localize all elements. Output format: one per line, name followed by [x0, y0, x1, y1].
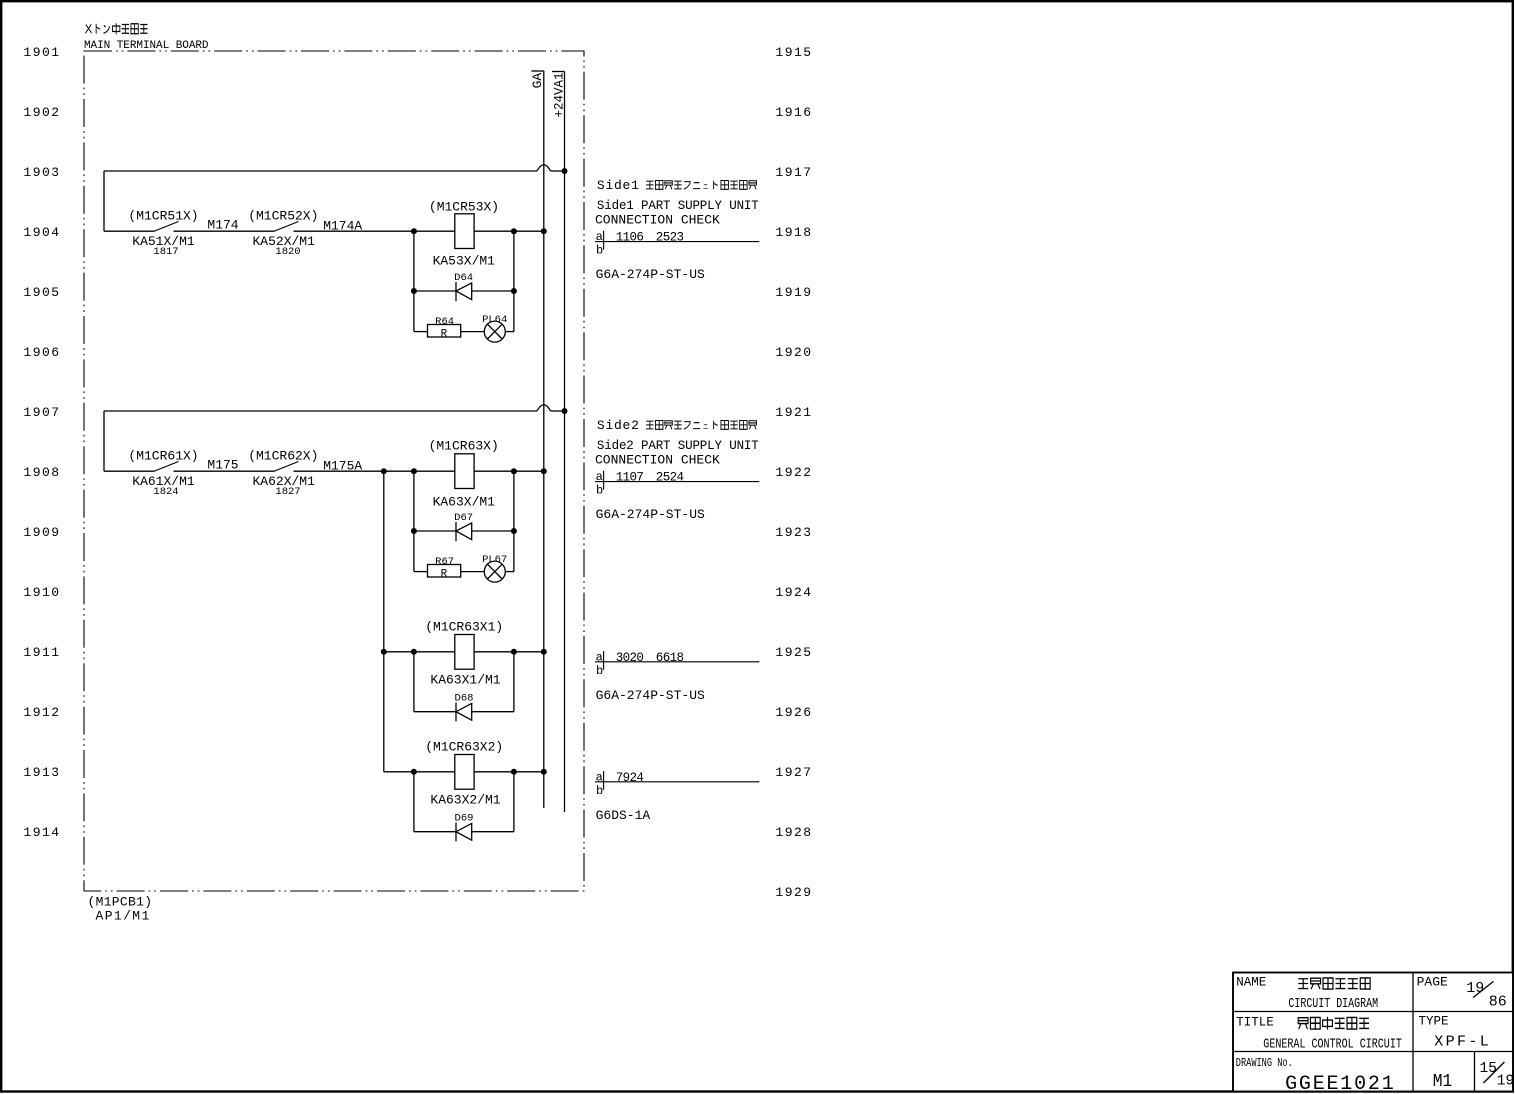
- wire feed vertical sec2-4: [383, 471, 385, 772]
- wire D68 right vertical: [513, 652, 515, 712]
- note Side1 Japanese: [597, 178, 757, 193]
- svg-text:1916: 1916: [775, 105, 812, 120]
- wire vertical 1907-1908: [103, 411, 105, 471]
- svg-text:1915: 1915: [775, 45, 812, 60]
- contact M1CR51X: [154, 222, 179, 232]
- svg-text:NAME: NAME: [1236, 976, 1266, 990]
- svg-text:TITLE: TITLE: [1236, 1015, 1274, 1029]
- svg-text:(M1CR53X): (M1CR53X): [429, 200, 499, 215]
- bus GA vertical line: [543, 71, 545, 808]
- svg-text:(M1CR52X): (M1CR52X): [248, 209, 318, 224]
- svg-text:1903: 1903: [23, 165, 60, 180]
- sheet number slash: [1484, 1062, 1505, 1083]
- svg-text:1901: 1901: [23, 45, 60, 60]
- svg-text:1925: 1925: [775, 645, 812, 660]
- svg-text:GA: GA: [530, 73, 545, 89]
- svg-text:Side2 PART SUPPLY UNIT: Side2 PART SUPPLY UNIT: [597, 439, 759, 453]
- svg-text:(M1CR63X2): (M1CR63X2): [425, 739, 503, 754]
- junction row1911 left branch: [411, 649, 417, 655]
- svg-text:G6A-274P-ST-US: G6A-274P-ST-US: [596, 267, 705, 282]
- bus +24VA1 top bar: [552, 71, 565, 73]
- svg-text:Side2: Side2: [597, 418, 640, 433]
- relay coil M1CR63X1: [455, 635, 474, 670]
- wire row 1913 right: [474, 771, 544, 773]
- terminal tick sec2: [603, 471, 605, 490]
- terminal tick sec3: [603, 651, 605, 670]
- junction row1908 left branch: [411, 468, 417, 474]
- terminal rule sec3: [595, 661, 759, 663]
- diode D67: [456, 522, 472, 541]
- svg-text:XPF-L: XPF-L: [1434, 1034, 1491, 1051]
- junction row1908/GA: [541, 468, 547, 474]
- relay coil M1CR63X: [455, 454, 474, 489]
- svg-text:R: R: [441, 329, 448, 341]
- svg-text:1817: 1817: [153, 246, 178, 258]
- svg-text:(M1CR51X): (M1CR51X): [128, 209, 198, 224]
- svg-text:PL67: PL67: [482, 554, 507, 566]
- diode D69: [456, 823, 472, 842]
- svg-text:1918: 1918: [775, 225, 812, 240]
- junction row1911/GA: [541, 649, 547, 655]
- svg-text:86: 86: [1489, 994, 1507, 1011]
- svg-text:1827: 1827: [275, 486, 300, 498]
- svg-text:b: b: [596, 784, 603, 798]
- svg-text:D69: D69: [455, 812, 474, 824]
- junction row1911 feed: [381, 649, 387, 655]
- bus +24VA1 vertical line: [564, 72, 566, 813]
- svg-text:1912: 1912: [23, 705, 60, 720]
- svg-text:1902: 1902: [23, 105, 60, 120]
- svg-text:1904: 1904: [23, 225, 60, 240]
- board label Japanese (main relay board): [85, 24, 91, 33]
- relay coil M1CR53X: [455, 214, 474, 249]
- svg-text:KA63X/M1: KA63X/M1: [433, 495, 496, 510]
- svg-text:1913: 1913: [23, 765, 60, 780]
- wire hop over GA at row 1903: [537, 165, 551, 171]
- svg-text:1906: 1906: [23, 345, 60, 360]
- svg-text:GGEE1021: GGEE1021: [1285, 1073, 1395, 1094]
- wire D68 row left: [414, 711, 456, 713]
- svg-text:R: R: [441, 569, 448, 581]
- junction D67 left: [411, 528, 417, 534]
- wire row 1904 segment D: [474, 230, 544, 232]
- wire branch left vertical sec1: [413, 231, 415, 331]
- wire row 1908 segment C: [294, 470, 455, 472]
- diode D64: [456, 282, 472, 301]
- svg-text:CONNECTION CHECK: CONNECTION CHECK: [595, 453, 720, 468]
- svg-text:(M1CR62X): (M1CR62X): [248, 449, 318, 464]
- wire PL67 right: [505, 571, 514, 573]
- svg-text:D64: D64: [454, 272, 473, 284]
- wire D67 row left: [414, 530, 456, 532]
- svg-text:1905: 1905: [23, 285, 60, 300]
- diode D68: [456, 703, 472, 722]
- svg-text:1907: 1907: [23, 405, 60, 420]
- svg-text:1923: 1923: [775, 525, 812, 540]
- terminal rule sec1: [595, 241, 759, 243]
- svg-text:1922: 1922: [775, 465, 812, 480]
- svg-text:1927: 1927: [775, 765, 812, 780]
- title Japanese general control circuit: [1298, 1018, 1308, 1029]
- wire row 1903 to +24VA1: [551, 170, 565, 172]
- svg-text:GENERAL CONTROL CIRCUIT: GENERAL CONTROL CIRCUIT: [1263, 1036, 1402, 1052]
- svg-text:AP1/M1: AP1/M1: [96, 909, 151, 924]
- junction row1907/+24VA1: [562, 408, 568, 414]
- wire row 1913: [384, 771, 455, 773]
- svg-text:1924: 1924: [775, 585, 812, 600]
- svg-text:b: b: [596, 244, 603, 258]
- wire D68 left vertical: [413, 652, 415, 712]
- svg-text:+24VA1: +24VA1: [552, 72, 566, 117]
- svg-text:(M1CR61X): (M1CR61X): [128, 449, 198, 464]
- junction row1911 right branch: [511, 649, 517, 655]
- title Japanese circuit diagram: [1298, 979, 1308, 989]
- svg-text:1106: 1106: [616, 231, 644, 245]
- svg-text:1107: 1107: [616, 471, 644, 485]
- wire D69 left vertical: [413, 772, 415, 832]
- wire R67-PL67: [461, 571, 485, 573]
- svg-text:1914: 1914: [23, 825, 60, 840]
- svg-text:1911: 1911: [23, 645, 60, 660]
- svg-text:1929: 1929: [775, 885, 812, 900]
- svg-text:M174A: M174A: [323, 219, 362, 234]
- title block outer frame: [1233, 973, 1513, 1092]
- wire D64 row left: [414, 290, 456, 292]
- lamp PL64: [484, 321, 505, 342]
- wire hop over GA at row 1907: [537, 405, 551, 411]
- wire row 1903 feed: [104, 170, 537, 172]
- svg-text:6618: 6618: [656, 651, 684, 665]
- svg-text:M1: M1: [1433, 1071, 1453, 1092]
- svg-text:1909: 1909: [23, 525, 60, 540]
- note Side2 Japanese: [597, 418, 757, 433]
- junction D67 right: [511, 528, 517, 534]
- terminal tick sec4: [603, 771, 605, 790]
- page number slash: [1473, 981, 1493, 997]
- wire row 1907 to +24VA1: [551, 410, 565, 412]
- svg-text:M175A: M175A: [323, 459, 362, 474]
- title block divider vertical row3: [1474, 1052, 1476, 1092]
- svg-text:PAGE: PAGE: [1417, 975, 1448, 990]
- svg-text:1928: 1928: [775, 825, 812, 840]
- svg-text:1920: 1920: [775, 345, 812, 360]
- wire row 1907 feed: [104, 410, 537, 412]
- svg-text:D67: D67: [454, 512, 473, 524]
- junction row1913/GA: [541, 769, 547, 775]
- svg-text:1820: 1820: [275, 246, 300, 258]
- svg-text:R67: R67: [435, 556, 454, 568]
- svg-text:D68: D68: [455, 692, 474, 704]
- junction row1904 right branch: [511, 228, 517, 234]
- svg-text:2524: 2524: [656, 471, 684, 485]
- wire R64 row left: [414, 331, 428, 333]
- wire vertical 1903-1904: [103, 171, 105, 231]
- junction row1904 left branch: [411, 228, 417, 234]
- svg-text:TYPE: TYPE: [1419, 1015, 1449, 1029]
- svg-text:DRAWING No.: DRAWING No.: [1236, 1057, 1293, 1071]
- svg-text:Side1: Side1: [597, 178, 640, 193]
- wire branch left vertical sec2: [413, 471, 415, 571]
- junction row1913 left branch: [411, 769, 417, 775]
- relay coil M1CR63X2: [455, 755, 474, 790]
- svg-text:M175: M175: [207, 458, 238, 473]
- svg-text:KA63X2/M1: KA63X2/M1: [430, 792, 500, 807]
- resistor R64: [428, 325, 461, 341]
- board outline M1PCB1 (dash-dot): [84, 51, 584, 891]
- terminal rule sec4: [595, 781, 759, 783]
- title block divider row1/row2: [1233, 1011, 1513, 1013]
- svg-text:KA63X1/M1: KA63X1/M1: [430, 672, 500, 687]
- wire PL64 right: [505, 331, 514, 333]
- svg-text:G6DS-1A: G6DS-1A: [596, 808, 651, 823]
- junction row1908 feed branch: [381, 468, 387, 474]
- wire D67 row right: [472, 530, 514, 532]
- lamp PL67: [484, 561, 505, 582]
- svg-text:1917: 1917: [775, 165, 812, 180]
- wire R64-PL64: [461, 331, 485, 333]
- svg-text:b: b: [596, 484, 603, 498]
- wire row 1911 right: [474, 651, 544, 653]
- svg-text:19: 19: [1497, 1074, 1514, 1090]
- svg-text:1921: 1921: [775, 405, 812, 420]
- svg-text:(M1PCB1): (M1PCB1): [88, 895, 153, 910]
- junction row1904/GA: [541, 228, 547, 234]
- terminal rule sec2: [595, 481, 759, 483]
- contact M1CR52X: [274, 222, 299, 232]
- svg-text:1824: 1824: [153, 486, 178, 498]
- wire D69 row right: [472, 831, 514, 833]
- wire R67 row left: [414, 571, 428, 573]
- wire D64 row right: [472, 290, 514, 292]
- wire row 1911: [384, 651, 455, 653]
- wire D68 row right: [472, 711, 514, 713]
- svg-text:Side1 PART SUPPLY UNIT: Side1 PART SUPPLY UNIT: [597, 199, 759, 213]
- wire D69 right vertical: [513, 772, 515, 832]
- title block divider vertical main: [1412, 973, 1414, 1092]
- wire row 1908 segment D: [474, 470, 544, 472]
- wire branch right vertical sec1: [513, 231, 515, 331]
- svg-text:MAIN TERMINAL BOARD: MAIN TERMINAL BOARD: [84, 40, 209, 52]
- svg-text:1910: 1910: [23, 585, 60, 600]
- svg-text:PL64: PL64: [482, 314, 507, 326]
- resistor R67: [428, 565, 461, 581]
- svg-text:15: 15: [1480, 1061, 1497, 1077]
- svg-text:(M1CR63X): (M1CR63X): [429, 439, 499, 454]
- wire row 1908 segment A: [104, 470, 154, 472]
- svg-text:KA53X/M1: KA53X/M1: [433, 254, 496, 269]
- svg-text:R64: R64: [435, 316, 454, 328]
- svg-text:CIRCUIT DIAGRAM: CIRCUIT DIAGRAM: [1288, 995, 1378, 1011]
- svg-text:19: 19: [1466, 980, 1484, 997]
- wire D69 row left: [414, 831, 456, 833]
- svg-text:3020: 3020: [616, 651, 644, 665]
- svg-text:1919: 1919: [775, 285, 812, 300]
- svg-text:G6A-274P-ST-US: G6A-274P-ST-US: [596, 688, 705, 703]
- title block divider row2/row3: [1233, 1051, 1513, 1053]
- bus GA top bar: [531, 70, 544, 72]
- svg-text:b: b: [596, 664, 603, 678]
- svg-text:2523: 2523: [656, 231, 684, 245]
- wire row 1908 segment B: [174, 470, 275, 472]
- contact M1CR62X: [274, 462, 299, 472]
- svg-text:1926: 1926: [775, 705, 812, 720]
- junction D64 left: [411, 288, 417, 294]
- svg-text:7924: 7924: [616, 771, 644, 785]
- svg-text:(M1CR63X1): (M1CR63X1): [425, 619, 503, 634]
- wire row 1904 segment A: [104, 230, 154, 232]
- junction D64 right: [511, 288, 517, 294]
- svg-text:CONNECTION CHECK: CONNECTION CHECK: [595, 213, 720, 228]
- junction row1908 right branch: [511, 468, 517, 474]
- wire row 1904 segment B: [174, 230, 275, 232]
- wire row 1904 segment C: [294, 230, 455, 232]
- wire branch right vertical sec2: [513, 471, 515, 571]
- svg-text:1908: 1908: [23, 465, 60, 480]
- junction row1903/+24VA1: [562, 168, 568, 174]
- svg-text:G6A-274P-ST-US: G6A-274P-ST-US: [596, 507, 705, 522]
- junction row1913 right branch: [511, 769, 517, 775]
- contact M1CR61X: [154, 462, 179, 472]
- svg-text:M174: M174: [207, 218, 238, 233]
- terminal tick sec1: [603, 231, 605, 250]
